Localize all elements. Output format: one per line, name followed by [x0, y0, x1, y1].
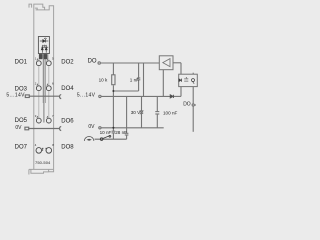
svg-text:30 V: 30 V — [131, 110, 141, 115]
svg-text:DO5: DO5 — [15, 118, 28, 124]
svg-text:10 nF: 10 nF — [100, 130, 112, 135]
svg-text:0V: 0V — [15, 125, 22, 131]
svg-text:2: 2 — [35, 82, 37, 86]
svg-text:DO4: DO4 — [61, 86, 74, 92]
svg-text:28 nF: 28 nF — [115, 130, 127, 135]
svg-text:5...14V: 5...14V — [6, 93, 25, 99]
svg-text:1 nF: 1 nF — [130, 77, 139, 82]
svg-text:4: 4 — [35, 143, 37, 147]
svg-text:DO7: DO7 — [15, 144, 28, 150]
svg-text:DO: DO — [183, 102, 191, 108]
svg-text:DO: DO — [88, 58, 97, 64]
svg-text:DO1: DO1 — [15, 60, 28, 66]
svg-text:750-504: 750-504 — [35, 160, 51, 165]
svg-text:3: 3 — [35, 114, 37, 118]
svg-text:5...14V: 5...14V — [77, 92, 96, 98]
svg-text:100 nF: 100 nF — [163, 111, 177, 116]
svg-text:DO6: DO6 — [61, 119, 74, 125]
svg-text:10 k: 10 k — [99, 77, 108, 82]
svg-text:1: 1 — [35, 57, 37, 61]
svg-text:0V: 0V — [88, 124, 95, 130]
svg-text:DO2: DO2 — [61, 60, 74, 66]
svg-text:DO8: DO8 — [61, 144, 74, 150]
